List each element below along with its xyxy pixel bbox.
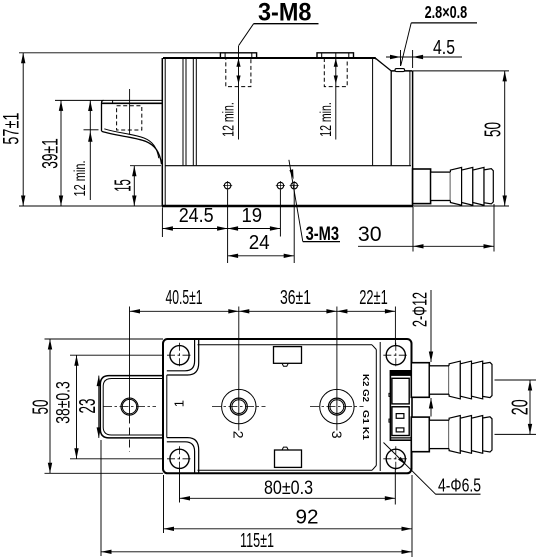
dim 15 line	[133, 166, 135, 206]
dim 57/39: bottom extension line	[19, 205, 162, 207]
side view: control terminal tab top lines	[103, 99, 162, 101]
svg-text:1: 1	[172, 400, 187, 407]
plan view: tab hole inner circle	[122, 399, 136, 413]
plan view: terminal 2 horizontal centerline	[310, 406, 364, 408]
plan view: main terminal 2 outer circle	[320, 389, 354, 423]
dim 12min left line	[89, 101, 91, 201]
svg-text:40.5±1: 40.5±1	[166, 287, 203, 309]
side view: body left edge (inner)	[164, 59, 166, 206]
dim 57: top extension line	[19, 52, 220, 54]
dim 12min left extension tick	[84, 129, 99, 131]
dim 39 line	[60, 100, 62, 206]
svg-text:20: 20	[506, 399, 532, 415]
plan view: mounting hole top-left crosshair	[167, 354, 192, 356]
plan view: module outline	[163, 339, 412, 473]
side view: right section top edge	[391, 70, 412, 72]
side view: tab lower curve outer	[102, 131, 162, 164]
svg-text:4.5: 4.5	[433, 37, 455, 59]
plan view: inner top edge	[198, 344, 373, 346]
plan ext: terminal 1 centerline	[238, 307, 240, 431]
plan view: main terminal 1 outer circle	[222, 389, 256, 423]
plan view: water barb lower	[411, 417, 429, 452]
dim 20: upper extension	[495, 379, 536, 381]
dim 38: top extension	[70, 354, 163, 356]
side view: tab lower curve inner	[104, 129, 159, 158]
side view: body rib line b2	[195, 59, 197, 166]
plan ext: lug hole top-right	[394, 307, 396, 346]
svg-text:24: 24	[249, 232, 270, 254]
plan view: tab hole horizontal centerline	[103, 406, 156, 408]
dim 24 line	[228, 255, 295, 257]
dim 50 side: top extension	[413, 70, 509, 72]
plan view: inner right edge 1	[375, 350, 377, 466]
label 3-M8 leader	[239, 24, 254, 46]
label 3-M3 underline	[303, 241, 340, 243]
side view: right section left edge	[390, 71, 392, 165]
side view: tab left edge	[102, 100, 104, 131]
side view: mounting boss 1 outline	[220, 53, 256, 58]
dim 80 line	[180, 497, 396, 499]
plan view: left inner edge between lugs	[166, 375, 168, 438]
side view: body rib line a1	[182, 59, 184, 166]
svg-text:39±1: 39±1	[37, 138, 62, 169]
label 2.8x0.8 underline	[411, 22, 477, 24]
plan view: inner right corner chamfer bottom	[372, 466, 376, 471]
svg-text:36±1: 36±1	[280, 287, 311, 309]
plan view: bottom-left lug inner contour	[167, 442, 195, 473]
svg-text:23: 23	[74, 399, 100, 414]
side view: boss 2 step line right	[348, 53, 350, 58]
side view: body right rib	[372, 59, 374, 166]
svg-text:3-M3: 3-M3	[306, 224, 339, 245]
plan view: molded bottom recess	[275, 450, 302, 467]
side view: module body top edge	[163, 57, 376, 59]
side view: boss 2 threaded hole (hidden)	[324, 58, 347, 87]
side view: boss 1 threaded hole (hidden)	[226, 58, 251, 87]
svg-text:57±1: 57±1	[0, 113, 23, 145]
plan view: control tab outer outline	[100, 376, 163, 438]
dim 4.5 extension	[400, 50, 402, 66]
svg-text:80±0.3: 80±0.3	[264, 477, 313, 499]
side view: tab hole centerline	[129, 89, 131, 134]
svg-text:2.8×0.8: 2.8×0.8	[425, 2, 468, 22]
dim 24.5 and 19 line	[162, 228, 280, 230]
svg-text:G1 K1: G1 K1	[361, 410, 371, 440]
dim 50 side line	[504, 71, 506, 206]
plan view: mounting hole bottom-right crosshair	[383, 458, 408, 460]
plan view: gate block outer housing	[390, 371, 412, 440]
plan view: gate block bottom line	[390, 437, 412, 439]
boss 1 centerline / 12min dim	[238, 46, 240, 140]
side view: M3 hole 2	[277, 182, 284, 189]
plan view: gate block lower window	[392, 407, 409, 436]
plan view: gate block divider	[392, 406, 409, 408]
svg-text:3: 3	[329, 431, 345, 439]
plan view: gate pin slot 2	[396, 428, 404, 432]
dim 57 line	[22, 53, 24, 206]
side view: body rib line a2	[185, 59, 187, 166]
svg-text:24.5: 24.5	[179, 205, 214, 227]
side view: M3 hole 3	[291, 182, 298, 189]
dim 24.5/19/24: extension at body edge	[161, 208, 163, 238]
svg-text:19: 19	[242, 205, 263, 227]
plan view: gate block latch bumps	[389, 393, 391, 396]
dim 50 plan: top extension	[45, 338, 164, 340]
plan view: mounting hole bottom-right	[386, 449, 405, 468]
dim 115 line	[101, 551, 412, 553]
boss 2 centerline / 12min dim	[335, 53, 337, 140]
side view: faston tab 2.8x0.8 cross-section	[395, 69, 405, 72]
side view: mounting boss 2 outline	[317, 53, 354, 58]
plan view: gate pin slot 1	[396, 414, 404, 419]
dim 38: bottom extension	[70, 458, 163, 460]
svg-text:15: 15	[109, 179, 135, 192]
dim 50 side: bottom extension	[413, 205, 509, 207]
dim 4.5 line	[386, 56, 462, 58]
plan ext: tab centerline	[129, 307, 131, 416]
dim 115: left extension	[100, 440, 102, 556]
dim 20 line	[529, 380, 531, 434]
dim 20: lower extension	[495, 433, 536, 435]
svg-text:50: 50	[28, 400, 53, 415]
dim extension at hole 1	[227, 190, 229, 263]
svg-text:2-Φ12: 2-Φ12	[410, 292, 432, 327]
plan view: mounting hole top-right	[386, 346, 405, 365]
label 2.8x0.8 leader	[401, 23, 411, 66]
side view: water hose barb	[413, 169, 431, 204]
plan view: mounting hole bottom-left	[170, 449, 189, 468]
dim 92: right extension	[411, 475, 413, 557]
side view: right face (inner line)	[409, 72, 411, 166]
dim 92: left extension	[163, 475, 165, 533]
plan view: inner right edge 2	[379, 342, 381, 471]
label 2-phi12 dim line lower	[430, 398, 432, 417]
side view: body right edge	[375, 58, 377, 60]
plan view: inner right corner chamfer top	[372, 345, 376, 350]
svg-text:92: 92	[296, 507, 319, 529]
plan ext: terminal 2 centerline	[336, 307, 338, 431]
side view: heatsink baseplate top edge	[166, 165, 412, 167]
plan view: main terminal 1 ring	[230, 398, 247, 415]
plan view: mounting hole top-right crosshair	[383, 354, 408, 356]
side view: tab hole (hidden)	[117, 106, 142, 130]
svg-text:50: 50	[479, 122, 505, 137]
side view: heatsink baseplate bottom edge	[162, 205, 413, 207]
plan view: bottom-left lug outer contour	[167, 438, 199, 473]
dim 30: left extension	[412, 207, 414, 252]
svg-text:2: 2	[231, 431, 247, 439]
side view: body left edge (outer)	[161, 58, 163, 206]
svg-text:30: 30	[358, 223, 382, 246]
dim 38 line	[76, 355, 78, 459]
plan view: water barb upper	[411, 363, 429, 398]
plan view: mounting hole bottom-left crosshair	[167, 458, 192, 460]
label 2-phi12 dim line upper	[430, 290, 432, 362]
svg-text:3-M8: 3-M8	[258, 0, 312, 26]
plan view: tab hole outer circle	[121, 398, 138, 415]
plan view: mounting hole top-left	[170, 346, 189, 365]
plan view: top-left lug outer contour	[167, 340, 199, 376]
label 3-M3 leader	[289, 160, 303, 242]
svg-text:4-Φ6.5: 4-Φ6.5	[438, 476, 481, 496]
dim 50 plan line	[49, 339, 51, 473]
plan view: top-left lug inner contour	[167, 340, 195, 371]
side view: body rib line b1	[192, 59, 194, 166]
label 4-phi6.5 leader	[384, 443, 436, 495]
dim 80: right extension	[394, 469, 396, 505]
plan view: control tab inner outline	[103, 379, 163, 436]
plan view: gate block top band	[390, 371, 412, 376]
label 4-phi6.5 underline	[435, 493, 480, 495]
dim 30 line	[358, 245, 494, 247]
plan view: molded top recess notch	[282, 363, 288, 366]
plan top dim line 40.5/36/22	[130, 310, 396, 312]
svg-text:K2 G2: K2 G2	[361, 374, 371, 402]
dim 50 plan: bottom extension	[45, 472, 164, 474]
dim extension at hole 2	[279, 190, 281, 237]
dim 39: top extension line	[55, 99, 103, 101]
label 3-M8 underline	[254, 23, 319, 25]
dim 30: right extension	[493, 204, 495, 252]
svg-text:22±1: 22±1	[359, 287, 388, 309]
side view: M3 hole 1	[224, 182, 231, 189]
svg-text:12 min.: 12 min.	[221, 102, 238, 137]
side view: boss 2 step line left	[321, 53, 323, 58]
plan view: molded bottom recess notch	[282, 447, 288, 450]
plan view: terminal 1 horizontal centerline	[212, 406, 266, 408]
plan view: inner bottom edge	[198, 469, 373, 471]
plan view: main terminal 2 ring	[328, 398, 345, 415]
dim 92 line	[164, 528, 413, 530]
dim 80: left extension	[179, 469, 181, 503]
side view: boss 1 step line right	[251, 53, 253, 58]
svg-text:12 min.: 12 min.	[318, 102, 335, 137]
side view: right face (outer)	[412, 71, 414, 206]
dim 4.5 right extension	[412, 50, 414, 68]
svg-text:38±0.3: 38±0.3	[53, 381, 74, 424]
side view: boss 1 step line left	[224, 53, 226, 58]
plan view: gate block upper window	[392, 378, 409, 404]
svg-text:12 min.: 12 min.	[72, 161, 89, 197]
side view: top-right chamfer	[376, 59, 391, 71]
dim 15 extension	[130, 165, 161, 167]
plan view: molded top recess	[274, 347, 302, 364]
dim 23 line	[98, 376, 100, 438]
svg-text:115±1: 115±1	[240, 530, 274, 552]
dim extension at hole 3	[293, 190, 295, 263]
